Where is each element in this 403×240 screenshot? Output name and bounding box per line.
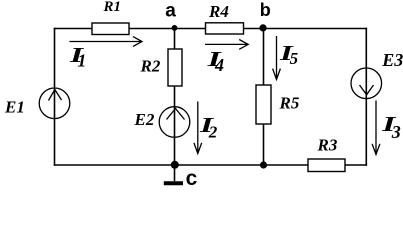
svg-text:R1: R1 [103,0,122,15]
node b junction dot [259,24,266,31]
current arrow I3 [372,101,380,155]
svg-text:5: 5 [290,49,299,68]
resistor R2 [168,49,182,86]
ground symbol at node c [164,165,183,183]
current arrow I1 [70,37,143,47]
wire left branch (E1 branch) [54,28,56,166]
source E1 arrow (up) [49,90,62,101]
svg-text:R5: R5 [279,94,300,113]
current arrow I2 [194,102,202,154]
current arrow I4 [205,40,248,50]
svg-text:2: 2 [208,123,218,142]
svg-text:R3: R3 [317,135,338,154]
resistor R4 [206,23,244,34]
wire R5 branch [263,28,265,166]
source E2 arrow (up) [167,109,185,120]
svg-text:1: 1 [77,50,86,70]
svg-text:E3: E3 [381,50,403,70]
svg-text:R4: R4 [208,2,229,21]
svg-text:E2: E2 [134,110,155,129]
svg-text:b: b [260,0,271,20]
wire bottom (from left corner through c to right corner) [54,164,367,166]
source E2 circle [159,107,190,138]
source E3 circle [351,68,382,99]
source E1 circle [39,88,70,119]
svg-text:E1: E1 [4,98,25,117]
svg-text:c: c [186,167,198,188]
wire top (from left corner through a and b to right corner) [54,28,367,30]
svg-text:a: a [165,1,176,22]
current arrow I5 [273,36,281,80]
node c junction dot [171,161,179,169]
svg-text:3: 3 [391,122,401,142]
svg-text:R2: R2 [140,57,161,76]
node a junction dot [172,25,178,31]
source E3 arrow (down) [360,85,374,95]
resistor R5 [256,85,271,124]
svg-text:4: 4 [214,55,224,75]
wire right branch (E3 branch) [365,28,367,166]
resistor R1 [92,23,129,35]
junction dot at R5 bottom [260,161,267,168]
resistor R3 [308,159,345,172]
wire middle branch (R2/E2 branch) [174,28,176,166]
